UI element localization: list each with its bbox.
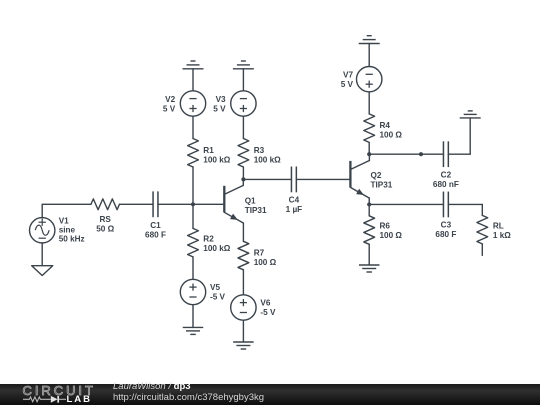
svg-text:Q1: Q1 <box>245 196 256 205</box>
svg-text:50 kHz: 50 kHz <box>59 235 85 244</box>
transistor Q1 TIP31 <box>223 186 225 213</box>
wire R3 to collector node <box>242 167 244 179</box>
wire R6 to ground <box>368 244 370 265</box>
ground above V7 <box>359 43 380 45</box>
wire C3 to RL <box>448 203 482 205</box>
svg-text:R6: R6 <box>380 222 391 231</box>
footer byline <box>113 382 264 403</box>
node junction dot at R1/R2/base <box>191 202 195 206</box>
svg-text:RS: RS <box>100 215 112 224</box>
resistor R3 100k <box>238 139 249 168</box>
wire V5 to ground <box>192 305 194 328</box>
wire C1 to Q1 base <box>158 203 224 205</box>
svg-text:R4: R4 <box>380 121 391 130</box>
capacitor C3 680F <box>442 192 444 218</box>
capacitor C1 680 F <box>152 191 154 217</box>
voltage source V2 5V <box>180 91 205 116</box>
svg-text:V1: V1 <box>59 217 69 226</box>
svg-text:TIP31: TIP31 <box>371 181 393 190</box>
svg-text:5 V: 5 V <box>341 80 354 89</box>
svg-text:TIP31: TIP31 <box>245 206 267 215</box>
resistor RL 1k <box>477 215 488 244</box>
junction dot Q2 collector <box>367 152 371 156</box>
wire ground to V2 <box>192 69 194 91</box>
wire R7 to V6 <box>242 270 244 295</box>
svg-text:Q2: Q2 <box>371 171 382 180</box>
svg-text:C3: C3 <box>441 221 452 230</box>
junction dot Q1 collector <box>241 177 245 181</box>
wire Q1 collector node to C4 <box>243 178 291 180</box>
capacitor C4 1uF <box>290 167 292 193</box>
resistor R4 100 <box>364 114 375 142</box>
wire R4 to Q2 collector node <box>368 142 370 154</box>
ground (triangle) under V1 <box>32 266 53 276</box>
voltage source V1 (sine 50 kHz) <box>30 218 55 243</box>
voltage source V5 -5V <box>180 279 205 304</box>
wire V1 to RS <box>42 203 91 205</box>
svg-text:100 Ω: 100 Ω <box>254 258 277 267</box>
svg-text:5 V: 5 V <box>163 104 176 113</box>
CircuitLab logo text LAB <box>67 394 93 405</box>
svg-text:V5: V5 <box>210 283 220 292</box>
CircuitLab logo text CIRCUIT <box>23 383 103 398</box>
wire RS to C1 <box>119 203 153 205</box>
ground below V5 <box>183 326 204 328</box>
CircuitLab logo wire-resistor-diode glyph <box>23 395 69 404</box>
wire ground to V3 <box>242 69 244 91</box>
resistor R2 100k <box>188 228 199 257</box>
capacitor C2 680nF <box>442 141 444 167</box>
junction dot on C2 wire <box>419 152 423 156</box>
ground above V3 <box>233 68 254 70</box>
wire V6 to ground <box>242 320 244 342</box>
svg-text:V7: V7 <box>343 71 353 80</box>
wire emitter node to C3 <box>369 203 443 205</box>
wire Q2 collector to C2 <box>369 153 443 155</box>
svg-text:100 kΩ: 100 kΩ <box>203 244 230 253</box>
footer bar <box>0 384 540 405</box>
svg-text:100 kΩ: 100 kΩ <box>254 156 281 165</box>
ground below V6 <box>233 341 254 343</box>
svg-text:RL: RL <box>493 222 504 231</box>
wire C2 to ground bend <box>448 153 470 155</box>
transistor Q2 TIP31 <box>349 161 351 188</box>
resistor R7 100 <box>238 241 249 269</box>
ground above V2 <box>183 68 204 70</box>
svg-text:C4: C4 <box>289 195 300 204</box>
junction dot Q2 emitter <box>367 202 371 206</box>
wire R2 to V5 <box>192 257 194 279</box>
voltage source V7 5V <box>357 67 382 92</box>
wire V2 to R1 <box>192 116 194 138</box>
svg-text:100 Ω: 100 Ω <box>380 131 403 140</box>
svg-text:680 F: 680 F <box>435 230 456 239</box>
svg-text:C1: C1 <box>150 221 161 230</box>
resistor R6 100 <box>364 216 375 245</box>
svg-text:680 F: 680 F <box>145 231 166 240</box>
svg-text:680 nF: 680 nF <box>433 180 459 189</box>
svg-text:1 kΩ: 1 kΩ <box>493 231 511 240</box>
svg-text:50 Ω: 50 Ω <box>96 225 114 234</box>
wire Q2 emitter down <box>368 198 370 216</box>
ground above C2 wire <box>460 117 481 119</box>
wire V1 bottom lead <box>41 243 43 266</box>
voltage source V6 -5V <box>231 295 256 320</box>
svg-text:V3: V3 <box>216 95 226 104</box>
svg-text:R3: R3 <box>254 146 265 155</box>
svg-text:V6: V6 <box>260 298 270 307</box>
wire V3 to R3 <box>242 116 244 138</box>
wire V1 top lead <box>41 204 43 217</box>
resistor RS 50 ohm <box>91 199 120 210</box>
voltage source V3 5V <box>231 91 256 116</box>
wire ground to V7 <box>368 44 370 67</box>
svg-text:C2: C2 <box>441 171 452 180</box>
wire R1 to node <box>192 167 194 204</box>
svg-text:5 V: 5 V <box>213 104 226 113</box>
svg-text:1 µF: 1 µF <box>286 205 303 214</box>
svg-text:100 kΩ: 100 kΩ <box>203 156 230 165</box>
svg-text:R1: R1 <box>203 146 214 155</box>
svg-text:R7: R7 <box>254 248 265 257</box>
svg-text:sine: sine <box>59 226 76 235</box>
svg-text:V2: V2 <box>165 95 175 104</box>
svg-text:-5 V: -5 V <box>260 308 276 317</box>
wire V7 to R4 <box>368 92 370 114</box>
svg-text:R2: R2 <box>203 235 214 244</box>
wire node to R2 <box>192 204 194 228</box>
resistor R1 100k <box>188 139 199 168</box>
ground below R6 <box>359 264 380 266</box>
wire RL bottom stub <box>481 244 483 256</box>
wire C4 to Q2 base <box>296 178 350 180</box>
svg-text:-5 V: -5 V <box>210 292 226 301</box>
wire Q1 emitter to R7 <box>242 223 244 241</box>
svg-text:100 Ω: 100 Ω <box>380 231 403 240</box>
